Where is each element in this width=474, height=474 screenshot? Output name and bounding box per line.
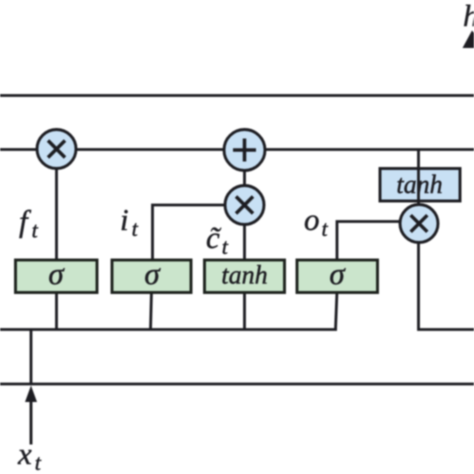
svg-text:ft: ft	[19, 204, 39, 243]
wire: below candidate tanh box	[243, 291, 246, 330]
svg-text:σ: σ	[48, 256, 65, 291]
svg-text:tanh: tanh	[221, 261, 267, 290]
sigma box 1 (forget gate)	[16, 260, 98, 293]
wire: x_t input shaft	[30, 400, 33, 445]
wire: cell state line c	[0, 148, 474, 151]
svg-text:ot: ot	[304, 202, 329, 241]
wire: tanh branch through blue box	[417, 149, 420, 240]
wire: candidate multiply to tanh box	[243, 205, 246, 261]
svg-text:xt: xt	[17, 436, 42, 474]
svg-text:σ: σ	[329, 256, 346, 291]
add node	[224, 130, 265, 171]
multiply node (output)	[400, 205, 438, 243]
wire: input gate path to multiply	[153, 205, 241, 261]
wire: below input box	[151, 291, 152, 330]
wire: output gate path to multiply	[337, 222, 410, 262]
arrowhead: h_t output (cropped)	[463, 31, 474, 49]
multiply node (candidate)	[225, 186, 264, 225]
sigma box 4 (output gate)	[297, 260, 378, 293]
svg-text:it: it	[120, 202, 139, 241]
cell box top edge	[0, 94, 474, 97]
svg-text:c̃t: c̃t	[206, 220, 229, 259]
wire: plus to candidate multiply	[243, 150, 246, 205]
wire: output of multiply to next cell	[419, 240, 474, 330]
tanh box (candidate)	[205, 260, 285, 293]
wire: internal h/x line	[0, 328, 337, 331]
wire: x_t input inside cell	[30, 330, 33, 384]
svg-text:h: h	[463, 0, 474, 33]
multiply node (forget)	[37, 130, 76, 169]
wire: forget gate vertical	[55, 149, 58, 261]
cell box bottom edge	[0, 383, 474, 386]
arrowhead: x_t into cell	[25, 386, 37, 403]
wire: below forget box	[55, 291, 58, 330]
sigma box 2 (input gate)	[112, 260, 191, 293]
wire: below output box	[336, 291, 338, 330]
tanh box (cell output, blue)	[380, 169, 460, 202]
svg-text:σ: σ	[144, 256, 161, 291]
